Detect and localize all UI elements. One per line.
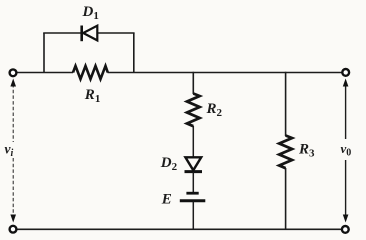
wire top right of R1	[108, 72, 343, 74]
diode D2	[185, 157, 203, 171]
wire D2 to battery	[192, 172, 194, 193]
terminal top-left	[10, 69, 17, 76]
wire top main	[17, 72, 74, 74]
diode D1	[82, 26, 98, 42]
resistor R1	[73, 66, 108, 79]
battery E	[180, 193, 206, 201]
resistor R3	[279, 136, 292, 169]
wire bottom main	[17, 228, 343, 230]
v0 measure arrow line	[343, 79, 349, 223]
wire R3 branch upper	[285, 72, 287, 136]
wire middle branch upper	[192, 72, 194, 94]
svg-text:E: E	[161, 192, 172, 208]
terminal top-right	[342, 69, 349, 76]
wire D1 loop top left	[43, 32, 81, 34]
wire battery to bottom	[192, 202, 194, 230]
wire D1 loop left vertical	[43, 33, 45, 73]
wire D1 loop top right	[98, 32, 135, 34]
terminal bottom-right	[342, 226, 349, 233]
terminal bottom-left	[10, 226, 17, 233]
resistor R2	[187, 94, 200, 127]
wire middle branch R2 to D2	[192, 126, 194, 158]
vi measure arrow line	[10, 79, 16, 223]
wire R3 branch lower	[285, 168, 287, 229]
wire D1 loop right vertical	[133, 33, 135, 73]
